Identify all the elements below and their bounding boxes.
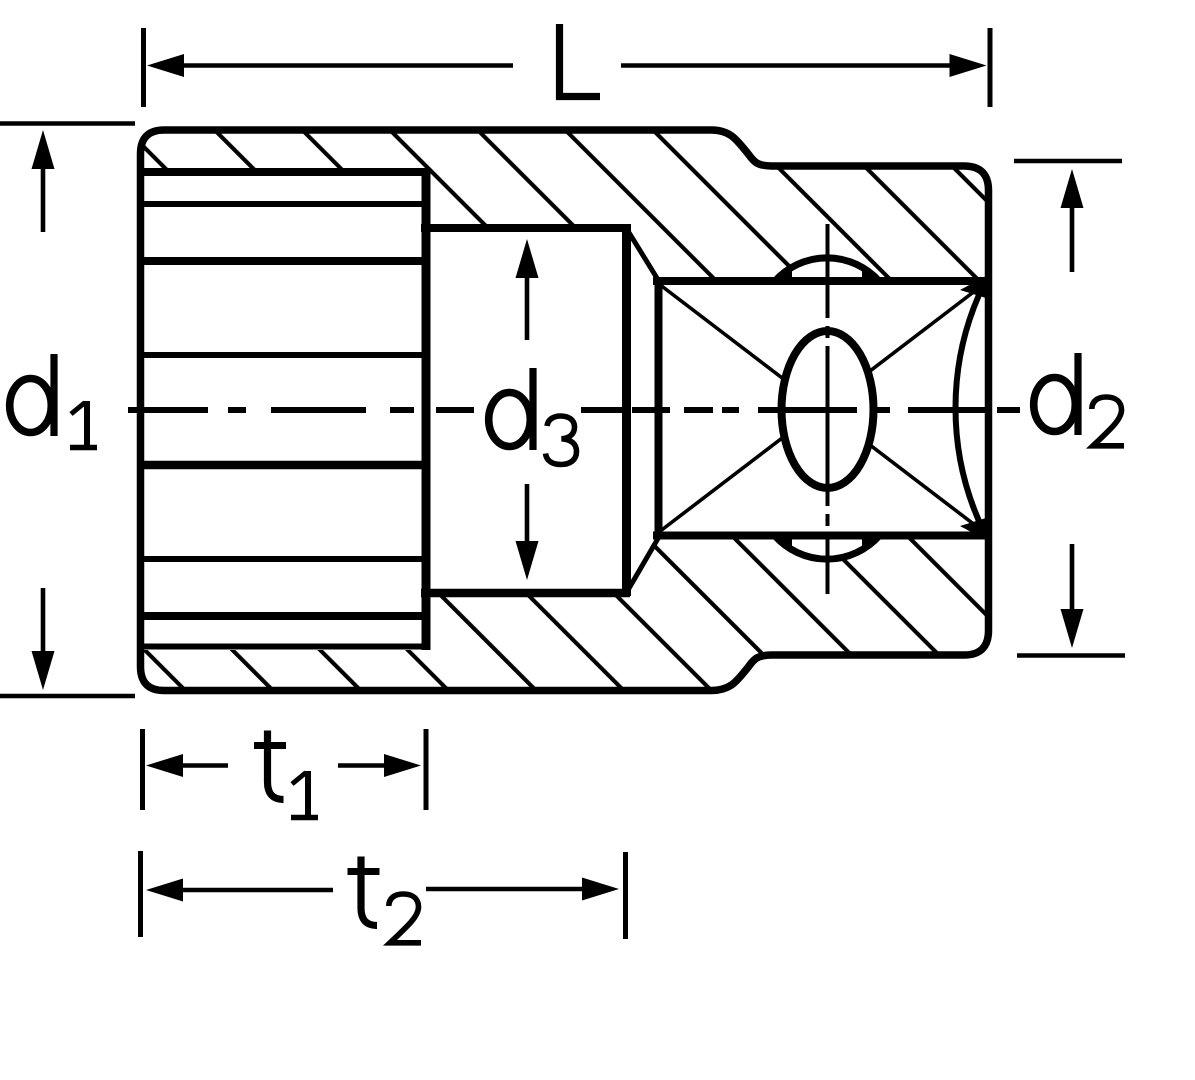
d3 cavity white interior [421, 225, 629, 591]
socket body hatched section fill [141, 130, 989, 691]
d2 arrow down [1070, 544, 1075, 612]
floor arc top corner fillet [960, 276, 986, 298]
bottom arc end wedges [775, 533, 879, 549]
label d2 [1034, 353, 1078, 435]
t1 tick left [140, 729, 145, 810]
bore tooth line 3 [141, 257, 426, 265]
drive square top edge [653, 277, 989, 285]
d2 extension line bottom [1017, 653, 1125, 658]
label t1 [254, 731, 286, 800]
t2 right arrow [426, 887, 587, 892]
dimension L left shaft [160, 63, 513, 68]
diagonal TR-BL of drive square [659, 284, 984, 532]
bore tooth line 7 [141, 612, 426, 620]
d3 arrow down [525, 484, 530, 546]
bottom ball-hole arc [775, 536, 879, 559]
bore right edge [422, 168, 431, 650]
ball detent ellipse [782, 331, 874, 488]
dimension L right shaft [621, 63, 975, 68]
diagonal TL-BR of drive square [659, 284, 984, 532]
dimension L left arrowhead [147, 54, 184, 77]
t2 left arrow [178, 888, 333, 893]
d3 arrow up [525, 272, 530, 340]
label L [560, 24, 601, 97]
dimension L tick right [988, 28, 993, 107]
chamfer bottom edge [628, 535, 660, 590]
bore tooth line 6 [141, 556, 426, 562]
dimension L right arrowhead [950, 54, 987, 77]
socket body outline [141, 130, 989, 691]
bore tooth line 5 [141, 461, 426, 470]
t1 right arrow [338, 763, 390, 768]
d3 cavity bottom edge [421, 589, 630, 598]
label t2 [348, 857, 380, 926]
label d3 [489, 368, 533, 450]
top arc end wedges [775, 269, 879, 285]
top ball-hole arc [775, 258, 879, 281]
drive square bottom edge [653, 532, 989, 540]
t2 tick left [138, 851, 143, 937]
label d1 [10, 354, 54, 436]
bore tooth line 2 [141, 201, 426, 207]
horizontal centerline [128, 407, 1020, 413]
square hole floor arc [955, 284, 984, 532]
vertical centerline of drive square [826, 224, 830, 594]
dimension L tick left [141, 28, 146, 107]
d1 extension line top [0, 121, 135, 126]
d1 extension line bottom [0, 694, 135, 699]
bore tooth line 1 [141, 168, 430, 176]
d3 cavity right edge [622, 224, 631, 596]
bottom ball-hole bump white [757, 419, 897, 559]
top ball-hole bump white [757, 258, 897, 398]
t1 tick right [424, 729, 429, 810]
d1 arrow up [41, 165, 46, 232]
bore (12pt) white interior [137, 169, 428, 650]
bore tooth line 4 [141, 352, 426, 358]
t2 tick right [623, 852, 628, 939]
drive square left edge [655, 277, 663, 540]
d1 arrow down [41, 588, 46, 655]
d2 arrow up [1070, 203, 1075, 272]
t1 left arrow [178, 763, 228, 768]
chamfer transition white [624, 228, 661, 588]
d2 extension line top [1014, 159, 1122, 164]
d3 cavity top edge [421, 224, 630, 232]
chamfer top edge [628, 231, 660, 283]
square drive cavity white [657, 282, 992, 535]
bore tooth line 8 [141, 644, 430, 650]
floor arc bottom corner fillet [960, 518, 986, 540]
